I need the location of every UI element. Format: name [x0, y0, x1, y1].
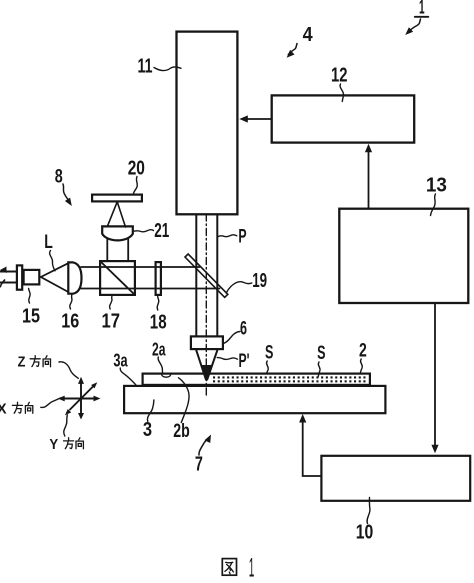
arrow from 13 to 10: [434, 304, 436, 445]
axis arrowhead down: [78, 413, 84, 420]
svg-text:15: 15: [22, 306, 40, 328]
svg-text:4: 4: [303, 24, 314, 46]
box 10: [321, 456, 470, 501]
axis arrowhead up: [78, 377, 84, 384]
box 11 laser oscillator: [177, 32, 238, 215]
lens 16: [68, 262, 81, 293]
svg-text:1: 1: [419, 0, 425, 19]
laser source 15 barrel lines: [0, 272, 16, 283]
leader of X direction: [41, 398, 61, 407]
leader of 13: [431, 194, 436, 216]
axis arrowhead left: [58, 396, 65, 402]
leader of 2a with hook: [158, 357, 171, 377]
axis cross center: [65, 384, 95, 414]
svg-text:2b: 2b: [173, 421, 190, 442]
leader of Z direction: [59, 362, 78, 378]
laser source 15 body: [24, 270, 40, 285]
glyph fangxiang after Z: [30, 356, 50, 367]
glyph fangxiang after Y: [64, 438, 84, 449]
svg-text:17: 17: [102, 311, 121, 333]
leader of 10: [367, 498, 370, 524]
glyph fangxiang after X: [12, 402, 32, 413]
box 13: [339, 209, 468, 303]
vertical beam below box 11, right edge: [216, 216, 218, 337]
laser source 15 left arrowhead: [0, 267, 7, 274]
axis arrowhead SW: [65, 409, 71, 415]
svg-text:16: 16: [61, 311, 79, 333]
solid focal tip P': [201, 365, 212, 382]
svg-text:3a: 3a: [113, 351, 128, 371]
svg-text:P': P': [239, 351, 250, 372]
box 12: [272, 95, 415, 142]
svg-text:11: 11: [138, 56, 153, 78]
arrow of label 8: [63, 184, 68, 200]
svg-text:6: 6: [240, 319, 247, 340]
vertical beam from cube 17 up to lens 21: [107, 239, 128, 261]
leader of P: [218, 235, 237, 237]
leader of L: [50, 251, 55, 271]
leader of 19: [226, 282, 252, 293]
svg-text:20: 20: [128, 158, 145, 180]
svg-text:19: 19: [252, 270, 267, 292]
svg-text:8: 8: [55, 167, 63, 188]
svg-text:S: S: [265, 343, 273, 364]
svg-text:S: S: [317, 343, 325, 364]
arrow of label 4: [288, 44, 297, 55]
leader of 20: [134, 177, 138, 194]
condenser lens 6: [191, 336, 223, 349]
leader of 2b: [179, 378, 190, 423]
svg-text:21: 21: [154, 220, 169, 242]
svg-text:18: 18: [150, 312, 167, 334]
axis vertical line down: [80, 399, 82, 414]
leader of 18: [157, 296, 159, 310]
modified layer S dots row 2: [213, 380, 366, 382]
svg-text:12: 12: [331, 65, 348, 87]
leader of 17: [110, 296, 112, 309]
horizontal beam top line: [81, 266, 200, 268]
leader of 2: [361, 359, 363, 372]
svg-text:Y: Y: [49, 436, 58, 453]
leader of 16: [70, 294, 72, 309]
svg-text:Z: Z: [18, 354, 26, 371]
leader of 6: [224, 332, 240, 344]
svg-text:2a: 2a: [152, 340, 166, 360]
svg-text:10: 10: [356, 522, 374, 544]
arrow from 13 to 12: [368, 153, 370, 208]
horizontal beam bottom line: [81, 288, 220, 290]
leader of S first: [267, 361, 269, 373]
leader of 3a: [120, 368, 136, 385]
svg-text:L: L: [44, 232, 53, 253]
arrow of label 1: [411, 19, 421, 30]
waveplate 18: [156, 262, 161, 295]
svg-text:1: 1: [249, 553, 255, 583]
leader of 11: [154, 67, 181, 71]
workpiece 2: [143, 374, 370, 385]
diagonal of cube 17: [101, 262, 135, 295]
modified layer S dots row 1: [213, 376, 366, 378]
laser source 15 flange: [17, 265, 22, 289]
mirror plate 20: [92, 195, 142, 202]
svg-text:13: 13: [426, 175, 447, 197]
axis Z vertical line up: [80, 384, 82, 399]
converging cone from 20 to 21: [107, 202, 125, 227]
optical axis P dash-dot line: [205, 214, 207, 398]
leader of 15: [29, 289, 31, 304]
laser source 15 cable curve: [0, 280, 4, 287]
axis Y line NE: [81, 387, 93, 399]
svg-text:P: P: [238, 227, 246, 248]
leader of S second: [318, 362, 320, 377]
arrow of label 7: [199, 439, 207, 455]
mirror 19: [185, 254, 228, 297]
stage 3: [124, 386, 385, 413]
axis X line left: [65, 398, 82, 400]
axis arrowhead NE: [91, 382, 97, 388]
svg-text:2: 2: [359, 341, 367, 362]
lens 21: [102, 226, 133, 240]
leader of 3: [147, 400, 153, 422]
leader of P': [217, 358, 237, 360]
leader of 12: [340, 84, 343, 102]
arrow from 10 to stage 3: [303, 423, 321, 477]
svg-text:3: 3: [143, 419, 152, 441]
diverging beam cone from 15 to 16: [41, 263, 69, 292]
leader of 21: [134, 230, 154, 232]
beam splitter cube 17: [100, 261, 135, 295]
axis Y line SW: [70, 399, 81, 410]
svg-text:7: 7: [195, 454, 203, 476]
figure caption glyph tu: [222, 559, 236, 576]
focused cone below lens 6: [196, 350, 217, 379]
arrow from 12 to 11: [248, 118, 271, 120]
leader of Y direction: [64, 415, 68, 436]
svg-text:X: X: [0, 401, 7, 418]
axis arrowhead right: [94, 396, 101, 402]
vertical beam below box 11, left edge: [195, 216, 197, 337]
axis X line right: [81, 398, 94, 400]
